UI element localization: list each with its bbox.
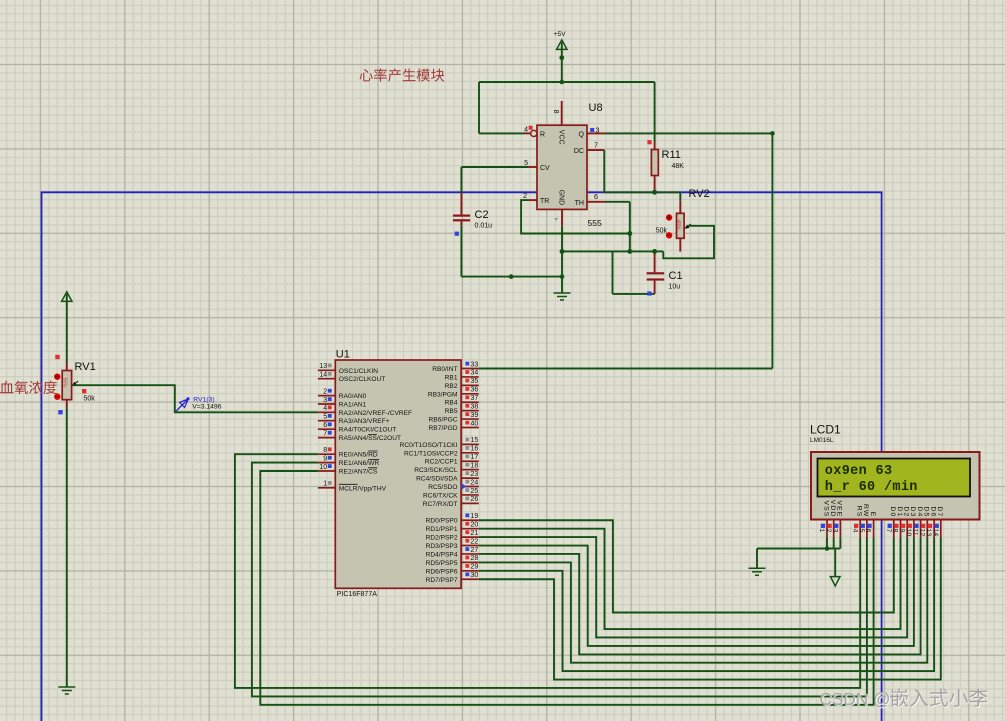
svg-text:3: 3 [596, 127, 600, 134]
svg-text:RD4/PSP4: RD4/PSP4 [426, 551, 458, 558]
svg-text:37: 37 [471, 395, 479, 402]
svg-text:7: 7 [323, 430, 327, 437]
svg-text:VEE: VEE [836, 500, 843, 517]
svg-text:25: 25 [471, 488, 479, 495]
svg-text:RD6/PSP6: RD6/PSP6 [426, 568, 458, 575]
svg-text:29: 29 [471, 564, 479, 571]
svg-text:11: 11 [912, 529, 919, 536]
svg-text:5: 5 [323, 414, 327, 421]
svg-text:RA0/AN0: RA0/AN0 [339, 393, 367, 400]
svg-text:D7: D7 [936, 507, 943, 518]
svg-text:8: 8 [892, 529, 899, 533]
svg-text:OSC2/CLKOUT: OSC2/CLKOUT [339, 376, 386, 383]
svg-text:RB3/PGM: RB3/PGM [428, 391, 458, 398]
svg-text:RV1: RV1 [75, 361, 96, 373]
svg-text:RC6/TX/CK: RC6/TX/CK [423, 492, 458, 499]
svg-text:D6: D6 [929, 507, 936, 518]
svg-text:555: 555 [588, 218, 602, 228]
svg-text:VDD: VDD [829, 500, 836, 518]
svg-text:U1: U1 [336, 349, 350, 361]
svg-text:10: 10 [905, 529, 912, 537]
svg-text:RA1/AN1: RA1/AN1 [339, 402, 367, 409]
svg-text:V=3.1496: V=3.1496 [192, 403, 222, 410]
svg-text:RC4/SDI/SDA: RC4/SDI/SDA [416, 476, 458, 483]
svg-text:7: 7 [594, 143, 598, 150]
svg-text:13: 13 [925, 529, 932, 537]
svg-text:7: 7 [885, 529, 892, 533]
svg-text:RA4/T0CKI/C1OUT: RA4/T0CKI/C1OUT [339, 427, 397, 434]
svg-text:RC3/SCK/SCL: RC3/SCK/SCL [414, 467, 458, 474]
svg-text:24: 24 [471, 479, 479, 486]
svg-text:22: 22 [471, 538, 479, 545]
svg-text:28: 28 [471, 555, 479, 562]
svg-text:9: 9 [898, 529, 905, 533]
svg-text:21: 21 [471, 530, 479, 537]
svg-text:OSC1/CLKIN: OSC1/CLKIN [339, 368, 378, 375]
svg-text:48K: 48K [672, 163, 685, 170]
svg-text:34: 34 [471, 370, 479, 377]
svg-text:RV2: RV2 [689, 188, 710, 200]
svg-text:4: 4 [524, 126, 528, 133]
svg-text:19: 19 [471, 513, 479, 520]
svg-text:RD3/PSP3: RD3/PSP3 [426, 543, 458, 550]
svg-text:TH: TH [575, 200, 584, 207]
svg-text:27: 27 [471, 547, 479, 554]
svg-text:RW: RW [862, 504, 869, 517]
svg-text:RA5/AN4/SS/C2OUT: RA5/AN4/SS/C2OUT [339, 435, 401, 442]
svg-text:GND: GND [558, 190, 565, 206]
svg-text:23: 23 [471, 471, 479, 478]
svg-text:15: 15 [471, 437, 479, 444]
svg-text:6: 6 [323, 422, 327, 429]
svg-text:3: 3 [832, 529, 839, 533]
svg-text:RD7/PSP7: RD7/PSP7 [426, 577, 458, 584]
svg-text:E: E [869, 512, 876, 518]
svg-text:8: 8 [552, 110, 559, 114]
svg-text:RB4: RB4 [445, 400, 458, 407]
svg-text:14: 14 [319, 372, 327, 379]
svg-text:RC5/SDO: RC5/SDO [428, 484, 457, 491]
svg-text:10u: 10u [669, 284, 681, 291]
svg-text:14: 14 [932, 529, 939, 537]
svg-text:RD0/PSP0: RD0/PSP0 [426, 518, 458, 525]
svg-text:D4: D4 [916, 507, 923, 518]
svg-text:12: 12 [918, 529, 925, 537]
svg-text:h_r 60 /min: h_r 60 /min [825, 480, 918, 495]
svg-text:D5: D5 [923, 507, 930, 518]
svg-text:50k: 50k [84, 396, 96, 403]
svg-text:+5V: +5V [553, 31, 566, 38]
svg-text:RB2: RB2 [445, 383, 458, 390]
svg-text:0.01u: 0.01u [475, 223, 493, 230]
svg-text:D1: D1 [896, 507, 903, 518]
svg-text:2: 2 [825, 529, 832, 533]
svg-text:D3: D3 [909, 507, 916, 518]
svg-text:RD2/PSP2: RD2/PSP2 [426, 535, 458, 542]
svg-text:MCLR/Vpp/THV: MCLR/Vpp/THV [339, 485, 387, 492]
svg-text:RB6/PGC: RB6/PGC [429, 417, 458, 424]
svg-text:DC: DC [574, 148, 584, 155]
svg-text:30: 30 [471, 572, 479, 579]
svg-text:RD5/PSP5: RD5/PSP5 [426, 560, 458, 567]
svg-text:2: 2 [323, 388, 327, 395]
svg-text:6: 6 [865, 529, 872, 533]
svg-text:35: 35 [471, 378, 479, 385]
svg-text:U8: U8 [589, 102, 603, 114]
svg-text:20: 20 [471, 521, 479, 528]
svg-text:4: 4 [323, 405, 327, 412]
svg-text:RC2/CCP1: RC2/CCP1 [425, 459, 458, 466]
svg-text:TR: TR [540, 198, 549, 205]
svg-text:R: R [540, 131, 545, 138]
svg-text:RA2/AN2/VREF-/CVREF: RA2/AN2/VREF-/CVREF [339, 410, 412, 417]
svg-text:10: 10 [319, 464, 327, 471]
svg-text:16: 16 [471, 446, 479, 453]
svg-text:4: 4 [851, 529, 858, 533]
svg-text:VSS: VSS [822, 500, 829, 517]
svg-text:RS: RS [856, 506, 863, 518]
svg-text:CSDN @: CSDN @ [820, 689, 891, 709]
svg-text:RD1/PSP1: RD1/PSP1 [426, 526, 458, 533]
svg-text:18: 18 [471, 462, 479, 469]
svg-text:6: 6 [594, 194, 598, 201]
svg-text:48%: 48% [675, 220, 681, 231]
svg-text:2: 2 [523, 193, 527, 200]
svg-text:1: 1 [323, 481, 327, 488]
svg-text:RE1/AN6/WR: RE1/AN6/WR [339, 460, 380, 467]
svg-text:3: 3 [323, 397, 327, 404]
svg-text:ox9en 63: ox9en 63 [825, 464, 893, 479]
svg-text:1: 1 [818, 529, 825, 533]
svg-text:C1: C1 [669, 270, 683, 282]
svg-text:RA3/AN3/VREF+: RA3/AN3/VREF+ [339, 418, 390, 425]
svg-text:R11: R11 [662, 149, 681, 161]
svg-text:VCC: VCC [558, 130, 565, 145]
svg-text:9: 9 [323, 455, 327, 462]
svg-text:D2: D2 [903, 507, 910, 518]
svg-text:13: 13 [319, 363, 327, 370]
svg-text:5: 5 [524, 160, 528, 167]
svg-text:LCD1: LCD1 [810, 423, 841, 437]
svg-text:RE2/AN7/CS: RE2/AN7/CS [339, 469, 378, 476]
svg-text:RC1/T1OSI/CCP2: RC1/T1OSI/CCP2 [404, 450, 458, 457]
svg-text:40: 40 [471, 420, 479, 427]
svg-text:RE0/AN5/RD: RE0/AN5/RD [339, 452, 378, 459]
svg-text:36: 36 [471, 387, 479, 394]
svg-text:5: 5 [858, 529, 865, 533]
svg-text:CV: CV [540, 165, 550, 172]
svg-text:RB7/PGD: RB7/PGD [429, 425, 458, 432]
svg-text:C2: C2 [475, 209, 489, 221]
svg-text:33: 33 [471, 361, 479, 368]
svg-text:RC0/T1OSO/T1CKI: RC0/T1OSO/T1CKI [400, 442, 458, 449]
svg-text:RB0/INT: RB0/INT [432, 366, 457, 373]
svg-text:26: 26 [471, 496, 479, 503]
svg-text:8: 8 [323, 447, 327, 454]
svg-text:39: 39 [471, 412, 479, 419]
svg-text:17: 17 [471, 454, 479, 461]
svg-text:50k: 50k [656, 228, 668, 235]
svg-text:RC7/RX/DT: RC7/RX/DT [423, 501, 458, 508]
svg-text:38: 38 [471, 403, 479, 410]
svg-text:RB1: RB1 [445, 374, 458, 381]
svg-text:D0: D0 [889, 507, 896, 518]
svg-text:PIC16F877A: PIC16F877A [337, 591, 377, 598]
svg-text:RB5: RB5 [445, 408, 458, 415]
svg-text:56%: 56% [61, 378, 67, 389]
svg-text:Q: Q [579, 131, 585, 138]
svg-text:LM016L: LM016L [810, 437, 834, 444]
